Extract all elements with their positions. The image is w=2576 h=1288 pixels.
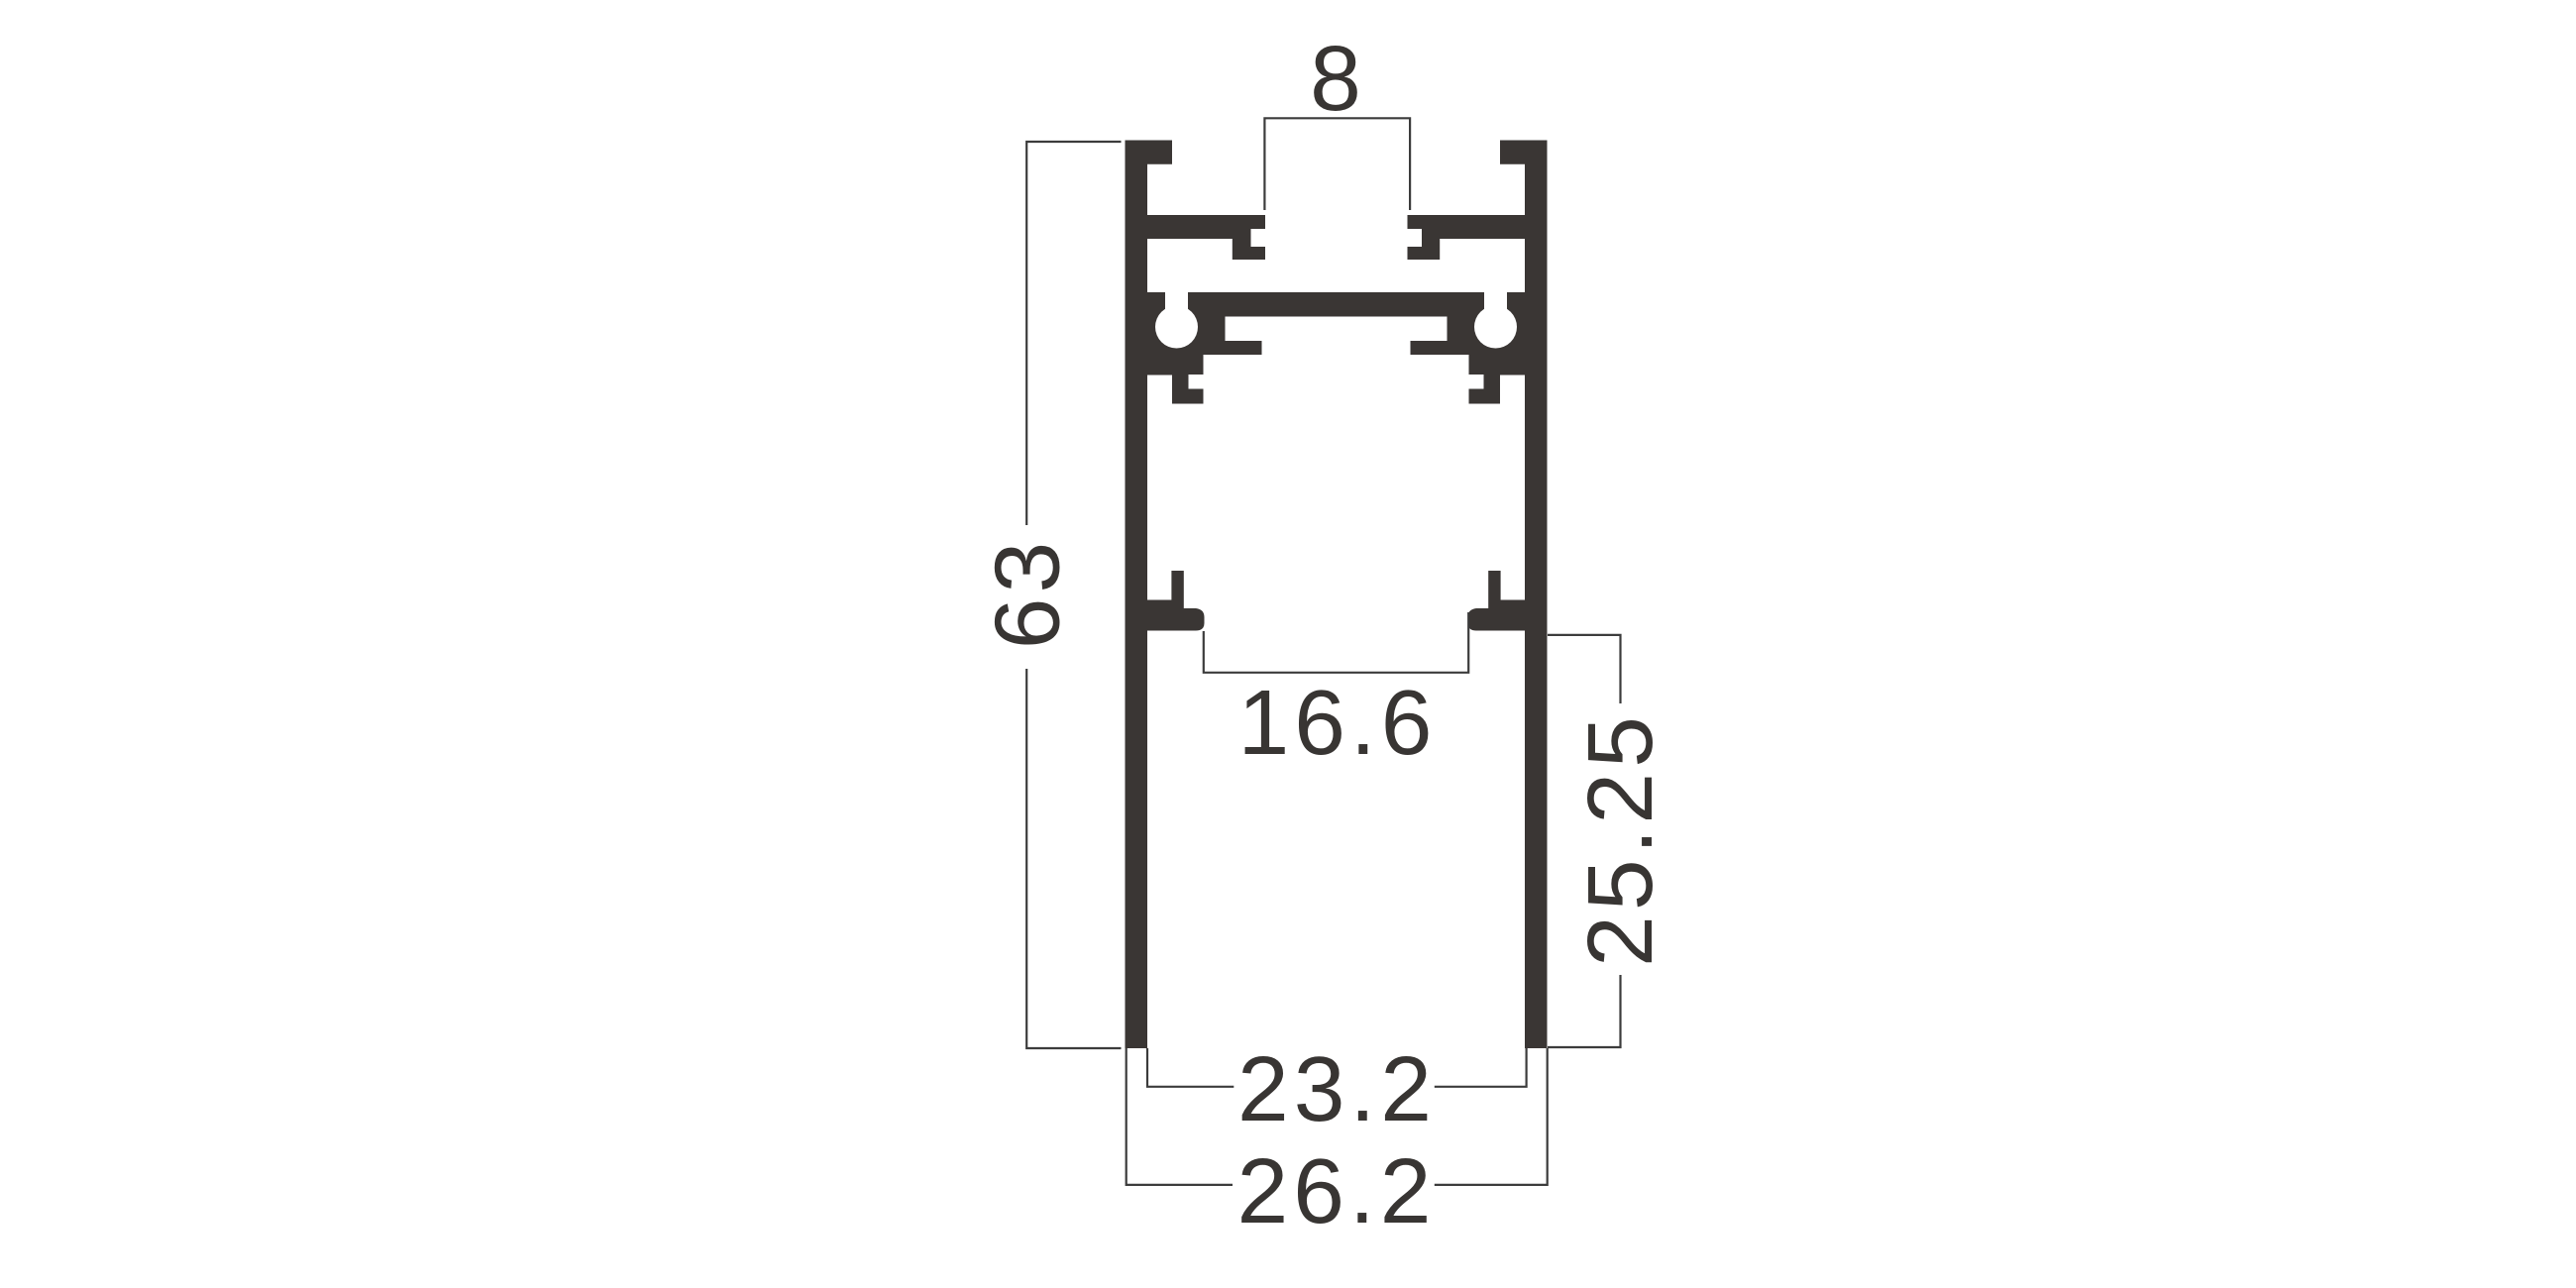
dimension texts xyxy=(976,27,1671,1242)
svg-text:26.2: 26.2 xyxy=(1236,1139,1436,1242)
profile left wall with top ear xyxy=(1126,141,1173,1049)
dim 8: bracket above the top slot xyxy=(1264,118,1410,210)
svg-text:63: 63 xyxy=(976,537,1079,649)
top plate right with C-clamp tooth xyxy=(1408,215,1534,260)
top plate left with C-clamp tooth xyxy=(1139,215,1265,260)
dim 63: left vertical with end ticks xyxy=(1026,142,1121,525)
right flange with finger xyxy=(1468,571,1534,631)
dimension lines xyxy=(1026,118,1620,1185)
dim 23.2: inner width at bottom xyxy=(1147,1048,1234,1087)
dim 25.25: right vertical xyxy=(1548,635,1621,703)
svg-text:25.25: 25.25 xyxy=(1568,711,1671,967)
svg-text:23.2: 23.2 xyxy=(1237,1037,1437,1140)
middle shelf with side masses, arms and lower hooks xyxy=(1139,292,1533,404)
profile right wall with top ear xyxy=(1500,141,1548,1049)
dim 26.2: outer width at bottom xyxy=(1127,1048,1233,1185)
dim 16.6: under central cavity xyxy=(1204,612,1468,673)
svg-text:16.6: 16.6 xyxy=(1237,671,1437,774)
svg-text:8: 8 xyxy=(1310,27,1366,130)
keyhole slot + circle right xyxy=(1484,291,1507,327)
left flange with finger xyxy=(1139,571,1205,631)
keyhole slot + circle left (white punch-out) xyxy=(1155,291,1517,349)
